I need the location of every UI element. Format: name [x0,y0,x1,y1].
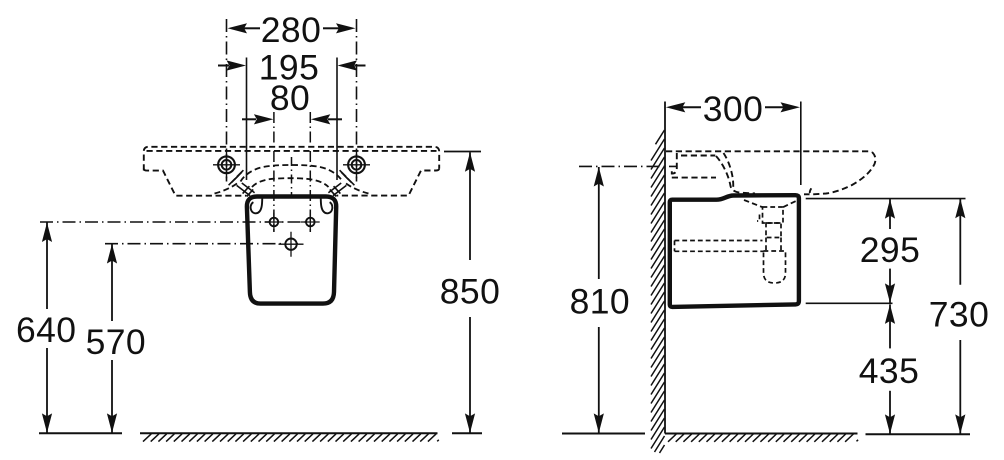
svg-text:640: 640 [16,310,76,350]
svg-text:295: 295 [860,230,920,270]
floor line right view [562,433,970,436]
basin outline front view [144,147,439,196]
svg-text:80: 80 [270,78,310,118]
pedestal small hole right [301,213,320,232]
svg-text:570: 570 [86,322,146,362]
svg-text:300: 300 [703,89,763,129]
basin bowl inner arcs (front) [212,165,371,194]
svg-text:810: 810 [570,281,630,321]
wall hatching [651,130,665,453]
dimension 280 [227,10,357,181]
dimension 850 [440,152,500,433]
fixing bolt left (circle + crosshair) [213,152,240,179]
svg-text:850: 850 [440,272,500,312]
centerline through big hole (570 level) [105,243,302,245]
wall face line [664,102,666,434]
dimension 570 [86,244,146,433]
basin underside (dashed) [744,200,797,207]
dimension 295 [806,199,966,303]
centerline through small holes (640 level) [40,221,312,223]
svg-text:280: 280 [261,10,321,50]
pedestal big hole [279,232,304,257]
floor hatching right view [668,434,858,442]
dimension 810 [570,166,676,433]
dimension 195 [218,47,366,180]
trap / waste (dashed) [675,207,786,283]
pedestal hook right [321,197,333,214]
pedestal hook left [251,197,263,214]
pedestal small hole left [265,213,284,232]
drain centerline (vertical, front) [291,157,293,199]
svg-text:435: 435 [859,351,919,391]
fixing bracket hatch right [328,170,354,196]
fixing bolt right (circle + crosshair) [343,152,370,179]
basin side profile (dashed) [666,151,875,194]
semi-pedestal side outline [670,195,799,307]
dimension 80 [242,78,342,232]
fixing bracket hatch left [229,170,255,196]
dimension 730 [929,199,989,434]
floor line left view [39,432,482,434]
floor hatching left view [143,434,439,442]
dimension 640 [16,223,76,433]
dimension 435 [806,303,920,434]
semi-pedestal front outline [247,197,336,304]
svg-text:730: 730 [929,294,989,334]
dimension 300 [666,89,801,185]
